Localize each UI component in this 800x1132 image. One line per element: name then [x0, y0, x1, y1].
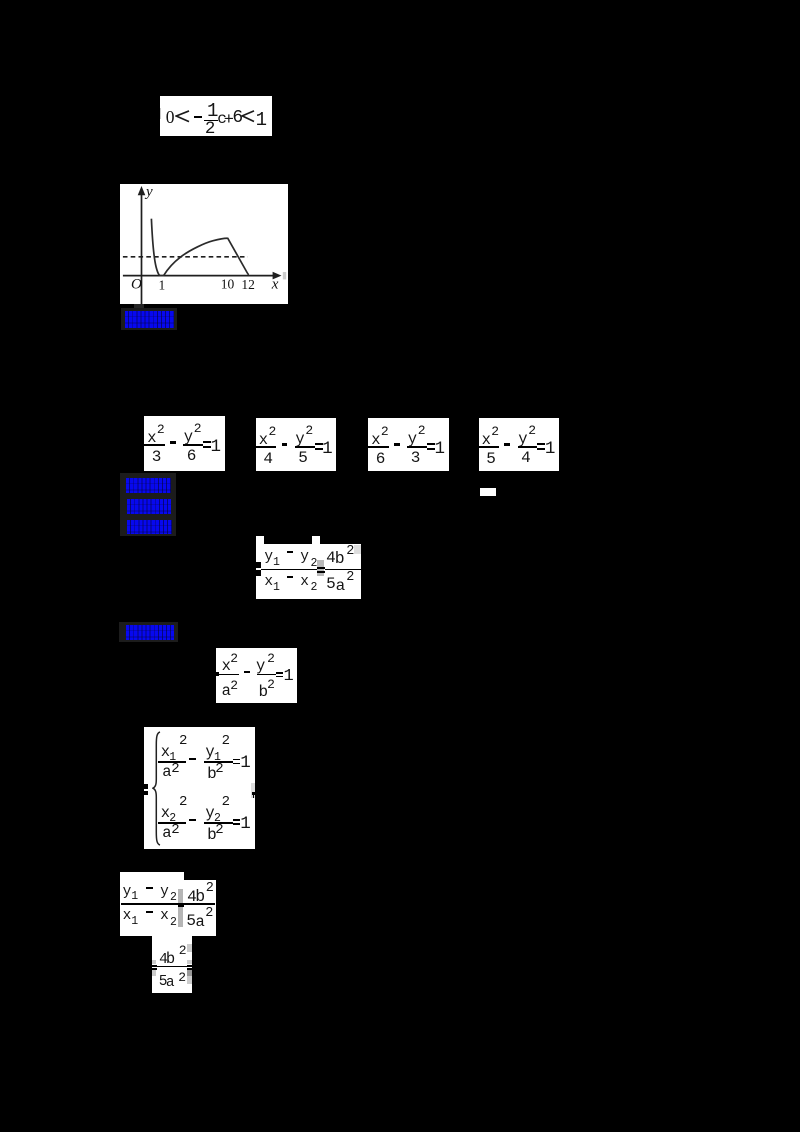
blue link text row 2	[119, 622, 178, 643]
axis stub below graph	[134, 304, 144, 312]
svg-text:1: 1	[159, 277, 166, 292]
equation 1	[161, 745, 170, 761]
small white dash fragment	[480, 488, 496, 496]
blue link text row	[121, 308, 177, 331]
svg-text:y: y	[144, 184, 153, 200]
three blue link rows	[120, 473, 176, 536]
formula (y1-y2)/(x1-x2) = 4b^2/5a^2 (second)	[120, 872, 184, 937]
svg-text:O: O	[131, 277, 142, 293]
formula image: 0 < -(1/2)c+6 < 1	[160, 96, 272, 137]
svg-text:x: x	[271, 277, 279, 293]
equation 2	[161, 806, 170, 822]
hyperbola x^2/6 - y^2/3 = 1	[368, 418, 449, 472]
gray artifacts around formula	[187, 944, 191, 953]
formula = 4b^2/5a^2	[152, 936, 192, 993]
graph image: function curve with axes	[120, 184, 288, 304]
formula x^2/a^2 - y^2/b^2 = 1	[216, 648, 297, 703]
hyperbola x^2/5 - y^2/4 = 1	[479, 418, 560, 472]
svg-text:12: 12	[241, 277, 255, 292]
formula (y1-y2)/(x1-x2) = 4b^2/5a^2	[256, 536, 264, 544]
system of two hyperbola equations with curly brace	[144, 727, 255, 849]
svg-text:10: 10	[221, 276, 235, 291]
comma after system	[251, 783, 255, 798]
hyperbola x^2/4 - y^2/5 = 1	[256, 418, 337, 472]
hyperbola x^2/3 - y^2/6 = 1	[144, 416, 225, 472]
curly brace	[152, 731, 161, 846]
